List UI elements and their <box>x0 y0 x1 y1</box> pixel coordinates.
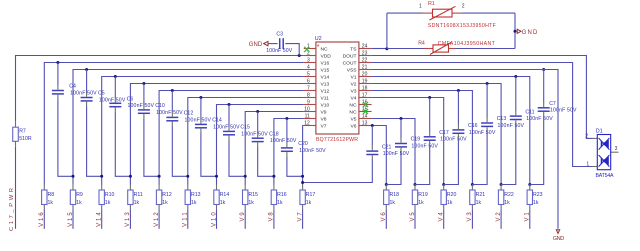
U2 pin 6 (left) <box>304 79 316 85</box>
junction node V8 above R16 <box>272 175 275 178</box>
resistor R9 1k <box>70 185 83 211</box>
svg-text:100nF 50V: 100nF 50V <box>411 143 438 149</box>
wire net V2: U2 to resistor R22 <box>372 84 502 185</box>
svg-text:14: 14 <box>362 114 368 120</box>
svg-text:100nF 50V: 100nF 50V <box>383 151 410 157</box>
node label V13 <box>125 210 131 229</box>
svg-text:24: 24 <box>362 44 368 50</box>
svg-text:11: 11 <box>305 114 310 120</box>
svg-text:100nF 50V: 100nF 50V <box>266 48 293 54</box>
svg-text:TS: TS <box>350 47 357 53</box>
svg-text:DOUT: DOUT <box>343 54 357 60</box>
junction node V1 above R23 <box>528 183 531 186</box>
svg-text:17: 17 <box>362 93 368 99</box>
wire thermistor loop right vertical <box>514 13 516 48</box>
U2 pin 8 (left) <box>304 93 316 99</box>
svg-text:100nF 50V: 100nF 50V <box>128 103 155 109</box>
U2 pin 18 (right) <box>359 86 372 92</box>
U2 pin 9 (left) <box>304 100 316 106</box>
U2 pin 19 (right) <box>359 79 372 85</box>
svg-text:1k: 1k <box>447 200 453 206</box>
svg-text:C17: C17 <box>439 130 449 136</box>
svg-text:13: 13 <box>362 121 368 127</box>
junction node V12 above R12 <box>158 175 161 178</box>
resistor R16 1k <box>271 185 287 211</box>
wire net V10: U2 pin 9 to resistor R14 <box>217 105 304 185</box>
svg-text:BAT54A: BAT54A <box>596 173 615 179</box>
junction node V3 above R21 <box>471 183 474 186</box>
svg-text:100nF 50V: 100nF 50V <box>185 117 212 123</box>
svg-text:23: 23 <box>362 51 368 57</box>
wire net V3: U2 to resistor R21 <box>372 91 473 185</box>
svg-text:NC: NC <box>349 110 357 116</box>
junction node V6 above R18 <box>385 183 388 186</box>
svg-text:10: 10 <box>304 107 310 113</box>
node label V9 <box>240 210 246 229</box>
junction node V2 above R22 <box>500 183 503 186</box>
capacitor C18 100nF 50V (V9-V8) <box>252 112 297 177</box>
svg-text:D1: D1 <box>596 128 603 134</box>
svg-text:1k: 1k <box>76 200 82 206</box>
svg-text:V12: V12 <box>154 212 160 227</box>
U2 pin 15 (right) <box>359 107 372 113</box>
svg-text:V8: V8 <box>321 117 327 123</box>
svg-text:NC: NC <box>349 103 357 109</box>
U2 pin 2 (left) <box>304 51 316 57</box>
wire COUT: U2 pin 22 to D1 pin 1 <box>372 63 593 167</box>
U2 pin 12 (left) <box>304 121 316 127</box>
svg-text:C14: C14 <box>212 118 222 124</box>
resistor R21 1k <box>470 185 486 211</box>
svg-text:V7: V7 <box>321 124 327 130</box>
svg-text:BQ7721612PWR: BQ7721612PWR <box>316 137 358 143</box>
ground port GND (top, at C3) <box>249 41 268 48</box>
junction on V13 wire at C10 <box>142 82 145 85</box>
svg-text:R20: R20 <box>447 192 457 198</box>
wire net V15: U2 pin 4 to resistor R9 <box>73 70 304 185</box>
svg-text:R4: R4 <box>418 41 425 47</box>
svg-text:1k: 1k <box>220 200 226 206</box>
capacitor C12 100nF 50V (V12-V11) <box>166 91 211 177</box>
svg-text:R11: R11 <box>134 192 143 198</box>
junction on wire at C11 <box>514 75 517 78</box>
junction on V14 wire at C6 <box>114 75 117 78</box>
wire thermistor loop left vertical <box>386 13 388 48</box>
svg-text:C21: C21 <box>382 144 392 150</box>
svg-text:1k: 1k <box>248 200 254 206</box>
svg-text:100nF 50V: 100nF 50V <box>469 130 496 136</box>
svg-text:100nF 50V: 100nF 50V <box>498 123 525 129</box>
svg-text:VDD: VDD <box>321 54 332 60</box>
wire net V1: U2 to resistor R23 <box>372 77 530 185</box>
wire net V9: U2 pin 10 to resistor R15 <box>245 112 304 185</box>
svg-text:V16: V16 <box>321 61 330 67</box>
thermistor R1 SDNT1608X153J3950HTF <box>419 1 496 29</box>
node label V4 <box>439 210 445 229</box>
junction on wire at C21 <box>371 124 374 127</box>
wire TS: U2 pin 24 to thermistor network <box>372 48 387 50</box>
svg-text:R15: R15 <box>248 192 258 198</box>
junction on wire at C16 <box>457 89 460 92</box>
svg-text:V1: V1 <box>351 75 357 81</box>
U2 pin 10 (left) <box>304 107 316 113</box>
svg-text:18: 18 <box>362 86 368 92</box>
junction on V12 wire at C12 <box>171 89 174 92</box>
U2 pin 3 (left) <box>304 58 316 64</box>
svg-text:V10: V10 <box>211 212 217 227</box>
svg-text:CMFA104J3950HANT: CMFA104J3950HANT <box>438 41 496 47</box>
resistor R20 1k <box>441 185 457 211</box>
junction on VDD wire at C3 drop <box>298 54 301 57</box>
resistor R7 510R <box>13 127 32 142</box>
svg-text:22: 22 <box>362 58 368 64</box>
svg-text:V14: V14 <box>321 75 330 81</box>
U2 pin 21 (right) <box>359 65 372 71</box>
svg-text:2: 2 <box>585 134 588 140</box>
U2 pin 7 (left) <box>304 86 316 92</box>
svg-text:C13: C13 <box>497 116 507 122</box>
node label V10 <box>211 210 217 229</box>
svg-text:VSS: VSS <box>347 68 358 74</box>
svg-text:3: 3 <box>615 146 618 152</box>
svg-text:R17: R17 <box>306 192 316 198</box>
junction node V7 above R17 <box>301 175 304 178</box>
junction on wire at C13 <box>486 82 489 85</box>
svg-text:1k: 1k <box>277 200 283 206</box>
svg-text:100nF 50V: 100nF 50V <box>526 116 553 122</box>
U2 pin 20 (right) <box>359 72 372 78</box>
U2 pin 1 (left) <box>304 44 316 50</box>
svg-text:GND: GND <box>553 236 565 242</box>
capacitor C15 100nF 50V (V10-V9) <box>223 105 268 177</box>
resistor R15 1k <box>243 185 259 211</box>
svg-text:100nF 50V: 100nF 50V <box>440 137 467 143</box>
svg-text:V2: V2 <box>351 82 357 88</box>
svg-text:GND: GND <box>249 42 263 48</box>
svg-text:V9: V9 <box>240 212 246 222</box>
svg-text:1k: 1k <box>306 200 312 206</box>
U2 pin 11 (left) <box>304 114 316 120</box>
wire net V7: U2 pin 12 to resistor R17 <box>303 126 304 185</box>
svg-text:100nF 50V: 100nF 50V <box>213 124 240 130</box>
svg-text:V15: V15 <box>321 68 330 74</box>
U2 pin 14 (right) <box>359 114 372 120</box>
svg-text:R22: R22 <box>504 192 514 198</box>
svg-text:100nF 50V: 100nF 50V <box>99 97 126 103</box>
svg-text:3: 3 <box>307 58 310 64</box>
U2 pin 17 (right) <box>359 93 372 99</box>
resistor R22 1k <box>498 185 514 211</box>
svg-text:12: 12 <box>304 121 310 127</box>
svg-text:*: * <box>317 44 320 51</box>
junction on V15 wire at C5 <box>85 68 88 71</box>
no-connect X on U2 pin 15 <box>363 109 368 114</box>
no-connect X on U2 pin 16 <box>363 102 368 107</box>
node label V12 <box>154 210 160 229</box>
svg-text:1k: 1k <box>504 200 510 206</box>
node label V1 <box>525 210 531 229</box>
junction node V4 above R20 <box>442 183 445 186</box>
svg-text:V8: V8 <box>269 212 275 222</box>
svg-text:21: 21 <box>362 65 368 71</box>
svg-text:R7: R7 <box>19 129 26 135</box>
wire net V12: U2 pin 7 to resistor R12 <box>159 91 304 185</box>
junction on wire at C7 <box>542 68 545 71</box>
svg-text:1k: 1k <box>134 200 140 206</box>
svg-text:100nF 50V: 100nF 50V <box>70 90 97 96</box>
svg-text:V1: V1 <box>525 212 531 222</box>
wire net V16: U2 pin 3 to resistor R8 <box>44 63 304 185</box>
svg-text:R12: R12 <box>162 192 172 198</box>
svg-text:1k: 1k <box>533 200 539 206</box>
svg-text:GND: GND <box>522 30 538 36</box>
junction on V9 wire at C18 <box>256 110 259 113</box>
svg-text:1: 1 <box>586 162 589 168</box>
U2 pin 13 (right) <box>359 121 372 127</box>
svg-text:100nF 50V: 100nF 50V <box>299 148 326 154</box>
wire net V8: U2 pin 11 to resistor R16 <box>274 119 304 185</box>
svg-text:2: 2 <box>462 4 465 10</box>
svg-text:V15: V15 <box>68 212 74 227</box>
svg-text:V6: V6 <box>351 124 357 130</box>
svg-text:1k: 1k <box>105 200 111 206</box>
svg-text:R21: R21 <box>476 192 486 198</box>
svg-text:V9: V9 <box>321 110 327 116</box>
capacitor C14 100nF 50V (V11-V10) <box>195 98 240 177</box>
junction on V10 wire at C15 <box>228 103 231 106</box>
wire VSS: U2 pin 21 right, down to ground <box>372 70 558 229</box>
svg-text:V6: V6 <box>381 212 387 222</box>
svg-text:1k: 1k <box>162 200 168 206</box>
svg-text:V12: V12 <box>321 89 330 95</box>
capacitor C13 100nF 50V <box>472 84 524 185</box>
svg-text:R19: R19 <box>418 192 428 198</box>
svg-text:1: 1 <box>419 4 422 10</box>
junction TS node <box>385 47 388 50</box>
svg-text:V5: V5 <box>351 117 357 123</box>
junction node V15 above R9 <box>72 175 75 178</box>
junction node V5 above R19 <box>414 183 417 186</box>
svg-text:C19: C19 <box>411 137 421 143</box>
svg-text:9: 9 <box>307 100 310 106</box>
svg-text:R16: R16 <box>277 192 287 198</box>
node label V11 <box>183 210 189 229</box>
svg-text:V4: V4 <box>351 96 357 102</box>
svg-text:R13: R13 <box>191 192 201 198</box>
wire net V14: U2 pin 5 to resistor R10 <box>102 77 304 185</box>
junction at GND tap <box>514 30 517 33</box>
svg-text:C10: C10 <box>155 103 165 109</box>
svg-text:7: 7 <box>307 86 310 92</box>
resistor R23 1k <box>527 185 543 211</box>
wire net V5: U2 to resistor R19 <box>372 119 415 185</box>
svg-text:C12: C12 <box>184 111 194 117</box>
capacitor C20 100nF 50V (V8-V7) <box>281 119 326 177</box>
svg-text:V13: V13 <box>125 212 131 227</box>
svg-text:5: 5 <box>307 72 310 78</box>
junction node V13 above R11 <box>129 175 132 178</box>
svg-text:U2: U2 <box>315 36 322 42</box>
svg-text:V16: V16 <box>39 212 45 227</box>
junction on V16 wire at C4 <box>56 61 59 64</box>
svg-text:8: 8 <box>307 93 310 99</box>
node label V6 <box>381 210 387 229</box>
svg-text:R9: R9 <box>76 192 83 198</box>
node label V3 <box>467 210 473 229</box>
svg-text:V7: V7 <box>297 212 303 222</box>
wire net V11: U2 pin 8 to resistor R13 <box>188 98 304 185</box>
resistor R14 1k <box>214 185 230 211</box>
wire VDD / C17_PWR net: pin2 left, down left edge <box>16 56 304 229</box>
svg-text:C16: C16 <box>468 123 478 129</box>
junction on V11 wire at C14 <box>199 96 202 99</box>
junction node V9 above R15 <box>244 175 247 178</box>
wire net V13: U2 pin 6 to resistor R11 <box>130 84 303 185</box>
junction node V10 above R14 <box>215 175 218 178</box>
resistor R18 1k <box>384 185 400 211</box>
capacitor C7 100nF 50V <box>530 70 577 185</box>
svg-text:V11: V11 <box>321 96 330 102</box>
resistor R17 1k <box>300 185 316 211</box>
svg-text:V11: V11 <box>183 212 189 227</box>
svg-text:V10: V10 <box>321 103 330 109</box>
svg-text:510R: 510R <box>19 136 32 142</box>
node label V8 <box>269 210 275 229</box>
resistor R10 1k <box>99 185 115 211</box>
ground port GND (right of thermistors) <box>517 29 538 36</box>
svg-text:V4: V4 <box>439 212 445 222</box>
capacitor C11 100nF 50V <box>501 77 553 185</box>
node label V7 <box>297 210 303 229</box>
capacitor C19 100nF 50V <box>386 119 438 185</box>
capacitor C21 100nF 50V <box>303 126 410 183</box>
U2 pin 5 (left) <box>304 72 316 78</box>
thermistor R4 CMFA104J3950HANT <box>418 41 495 55</box>
U2 pin 23 (right) <box>359 51 372 57</box>
junction node V7 at C21 bottom wire <box>301 181 304 184</box>
svg-text:1k: 1k <box>418 200 424 206</box>
resistor R8 1k <box>42 185 55 211</box>
svg-text:SDNT1608X153J3950HTF: SDNT1608X153J3950HTF <box>428 23 496 29</box>
svg-text:C11: C11 <box>525 109 534 115</box>
svg-text:1k: 1k <box>476 200 482 206</box>
capacitor C17 100nF 50V <box>415 98 467 185</box>
svg-text:COUT: COUT <box>343 61 357 67</box>
capacitor C10 100nF 50V (V13-V12) <box>138 84 183 177</box>
capacitor C16 100nF 50V <box>444 91 496 185</box>
capacitor C5 100nF 50V (V15-V14) <box>81 70 126 177</box>
ground symbol GND (bottom right) <box>553 230 565 242</box>
svg-text:20: 20 <box>362 72 368 78</box>
U2 pin 24 (right) <box>359 44 372 50</box>
svg-text:4: 4 <box>307 65 310 71</box>
svg-text:1k: 1k <box>48 200 54 206</box>
svg-text:NC: NC <box>321 47 329 53</box>
resistor R13 1k <box>185 185 201 211</box>
svg-text:R8: R8 <box>48 192 55 198</box>
svg-text:R10: R10 <box>105 192 115 198</box>
resistor R11 1k <box>128 185 143 211</box>
svg-text:R23: R23 <box>533 192 543 198</box>
U2 pin 22 (right) <box>359 58 372 64</box>
junction on wire at C17 <box>428 96 431 99</box>
svg-text:1k: 1k <box>191 200 197 206</box>
junction on V8 wire at C20 <box>285 117 288 120</box>
U2 pin 4 (left) <box>304 65 316 71</box>
junction on wire at C19 <box>400 117 403 120</box>
junction node V11 above R13 <box>186 175 189 178</box>
svg-text:V2: V2 <box>496 212 502 222</box>
wire R4 bottom branch <box>387 48 515 50</box>
diode D1 BAT54A <box>585 128 618 179</box>
capacitor C4 100nF 50V (V16-V15) <box>52 63 97 177</box>
svg-text:V14: V14 <box>97 212 103 227</box>
IC U2 BQ7721612PWR <box>315 36 359 134</box>
svg-text:V13: V13 <box>321 82 330 88</box>
svg-text:R1: R1 <box>428 1 435 7</box>
wire C3 to VDD pin 2 <box>285 44 299 56</box>
wire net V6: U2 to resistor R18 <box>372 126 387 185</box>
svg-text:19: 19 <box>362 79 368 85</box>
svg-text:R18: R18 <box>390 192 400 198</box>
wire DOUT: U2 pin 23 to D1 pin 2 <box>372 56 593 139</box>
svg-text:6: 6 <box>307 79 310 85</box>
resistor R19 1k <box>412 185 428 211</box>
node label V16 <box>39 210 45 229</box>
capacitor C3 100nF 50V (horizontal) <box>266 32 293 55</box>
resistor R12 1k <box>156 185 172 211</box>
node label V2 <box>496 210 502 229</box>
capacitor C6 100nF 50V (V14-V13) <box>109 77 154 177</box>
svg-text:R14: R14 <box>220 192 230 198</box>
junction node V14 above R10 <box>100 175 103 178</box>
wire R1 top branch <box>387 12 515 14</box>
node label V5 <box>410 210 416 229</box>
svg-text:100nF 50V: 100nF 50V <box>156 110 183 116</box>
svg-text:V3: V3 <box>351 89 357 95</box>
svg-text:1k: 1k <box>390 200 396 206</box>
no-connect X on U2 pin 1 <box>304 47 309 52</box>
wire net V4: U2 to resistor R20 <box>372 98 444 185</box>
svg-text:V5: V5 <box>410 212 416 222</box>
svg-text:V3: V3 <box>467 212 473 222</box>
node label V15 <box>68 210 74 229</box>
svg-text:C3: C3 <box>276 32 283 38</box>
svg-text:C7: C7 <box>549 101 556 107</box>
node label V14 <box>97 210 103 229</box>
U2 pin 16 (right) <box>359 100 372 106</box>
